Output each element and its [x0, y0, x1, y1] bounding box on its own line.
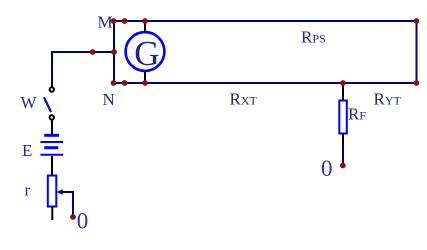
wire wiper to terminal 0 [72, 191, 74, 216]
junction dot N corner [111, 80, 117, 86]
junction dot RF tap [340, 80, 346, 86]
junction dot G bottom [142, 80, 148, 86]
junction dot top bus left [122, 18, 128, 24]
svg-text:0: 0 [321, 156, 333, 181]
resistor RF body [339, 101, 347, 134]
wire right vertical [416, 21, 418, 83]
svg-text:M: M [98, 13, 113, 32]
switch W top pin [51, 84, 53, 87]
rheostat wiper arrow [61, 191, 73, 193]
switch W bottom terminal [50, 115, 54, 119]
rheostat r body [48, 176, 57, 207]
junction dot top-right corner [414, 18, 420, 24]
wire RF to terminal 0 [342, 145, 344, 164]
switch W bottom pin down to battery [51, 120, 53, 135]
battery E plate 1 short thick [44, 134, 59, 137]
wire left branch vertical down to switch [51, 51, 53, 85]
resistor RF bottom pin [342, 134, 344, 146]
node 0 (left) junction dot [70, 214, 76, 220]
battery E bottom pin [51, 156, 53, 176]
battery E plate 4 long [40, 154, 63, 156]
junction dot bottom bus left [122, 80, 128, 86]
switch W blade [44, 97, 51, 112]
wire left branch horizontal [52, 51, 114, 53]
rheostat r bottom pin [51, 207, 53, 221]
node 0 (right) junction dot [340, 163, 346, 169]
svg-text:E: E [22, 141, 32, 160]
wire top bus M to top-right corner [113, 20, 417, 22]
switch W top terminal [50, 87, 54, 91]
junction dot M corner [111, 18, 117, 24]
junction dot G top [142, 18, 148, 24]
battery E plate 3 short thick [44, 146, 58, 149]
svg-text:r: r [25, 181, 31, 200]
galvanometer G body [126, 32, 165, 71]
galvanometer U1 top pin [144, 21, 146, 33]
wire left vertical M-N [113, 21, 115, 83]
wire bottom bus N to bottom-right corner [113, 82, 417, 84]
svg-text:N: N [103, 90, 115, 109]
galvanometer U1 bottom pin [144, 70, 146, 83]
resistor RF top pin [342, 83, 344, 101]
svg-text:G: G [134, 34, 159, 73]
junction dot bottom-right corner [414, 80, 420, 86]
battery E plate 2 long [40, 141, 63, 143]
junction dot left branch mid [90, 49, 96, 55]
svg-text:0: 0 [77, 209, 89, 234]
svg-text:W: W [21, 93, 38, 112]
junction dot left branch at M-N wire [111, 49, 117, 55]
